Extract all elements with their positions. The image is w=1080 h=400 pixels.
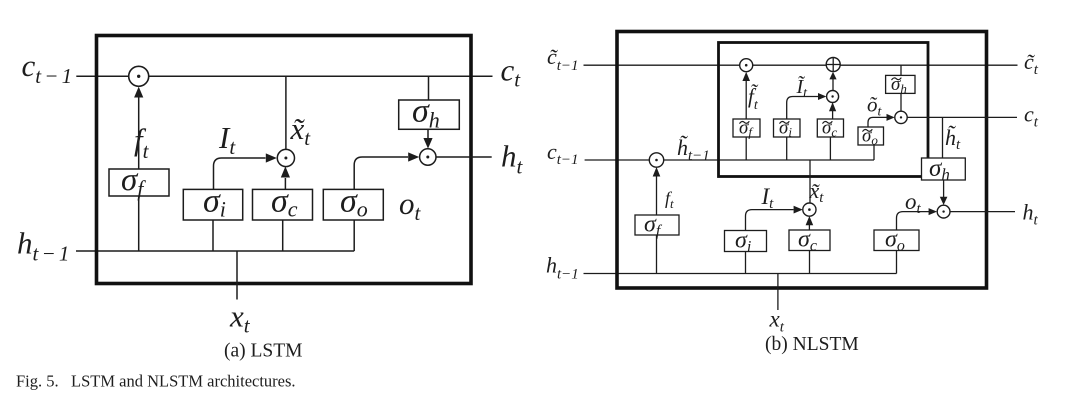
node i product ⊙ (b inner) <box>827 91 839 103</box>
wire σ-tilde_h to o product (b inner) <box>900 93 902 111</box>
gate σ_f (a) <box>109 162 169 201</box>
arrow σ_c into x-tilde product (a) <box>284 178 286 189</box>
wire x_t input (b) <box>777 274 779 311</box>
arrow I-tilde into i product (b inner) <box>818 93 826 100</box>
wire σ_c to h line (b) <box>809 251 811 274</box>
gate σ_f (b) <box>635 212 679 240</box>
wire c_{t-1} / h-tilde_{t-1} (b) <box>585 159 874 161</box>
arrow I_t into x-tilde product (b) <box>794 206 803 214</box>
arrow σ-tilde_c into i product (b inner) <box>832 111 834 119</box>
arrow σ_c into x-tilde product (b) <box>808 225 810 230</box>
wire I_t elbow (b) <box>746 210 794 231</box>
svg-text:ht−1: ht−1 <box>546 253 579 283</box>
gate σ-tilde_c (b inner) <box>817 118 843 140</box>
svg-text:ft: ft <box>134 122 150 163</box>
svg-text:(b) NLSTM: (b) NLSTM <box>765 334 859 355</box>
node c product ⊙ (b) <box>649 153 663 167</box>
arrow i product into plus node (b inner) <box>832 79 834 91</box>
wire σ-tilde_o down to h-tilde line end (b inner) <box>873 145 875 160</box>
wire h_{t-1} (a) <box>76 250 354 252</box>
wire f_t vertical (a) <box>138 96 140 251</box>
svg-text:õt: õt <box>867 93 883 120</box>
inner cell box (b) <box>719 43 929 177</box>
svg-text:(a) LSTM: (a) LSTM <box>224 340 303 361</box>
wire c_t out (b) <box>907 116 1017 118</box>
arrow o_t into output product (a) <box>408 152 419 161</box>
wire c-tilde line to σ-tilde_h (b inner) <box>900 65 902 75</box>
svg-text:ht: ht <box>501 139 524 179</box>
wire σ_o to h line (b) <box>896 251 898 274</box>
svg-text:xt: xt <box>229 299 251 338</box>
gate σ_o (a) <box>323 183 383 222</box>
wire σ_i to h line (a) <box>212 220 214 251</box>
arrow into forget product (a) <box>134 87 143 98</box>
wire σ_o to h line (a) <box>353 220 355 251</box>
svg-text:ot: ot <box>905 189 922 217</box>
wire I_t elbow (a) <box>214 158 266 189</box>
gate σ-tilde_f (b inner) <box>733 118 760 140</box>
arrow into c product (b) <box>653 167 661 177</box>
arrow I_t into x-tilde product (a) <box>266 153 277 162</box>
arrow σ_h into h product (b) <box>943 180 945 197</box>
gate σ_c (b) <box>789 227 830 255</box>
svg-text:x̃t: x̃t <box>290 111 312 150</box>
node h product ⊙ (b) <box>937 205 950 218</box>
wire σ_c to h line (a) <box>282 220 284 251</box>
wire σ_o elbow to output product (a) <box>354 157 408 189</box>
svg-text:c̃t: c̃t <box>1024 49 1039 78</box>
svg-text:xt: xt <box>769 306 785 335</box>
node f-tilde product ⊙ (b inner) <box>740 59 753 72</box>
outer cell box (a) <box>97 36 472 284</box>
svg-text:ct: ct <box>501 52 522 91</box>
wire σ-tilde_c to h-tilde line (b inner) <box>829 137 831 160</box>
gate σ-tilde_h (b inner) <box>886 74 915 96</box>
gate σ-tilde_o (b inner) <box>858 126 884 148</box>
svg-text:h̃t−1: h̃t−1 <box>677 135 710 164</box>
node plus ⊕ (b inner) <box>826 58 840 72</box>
svg-text:c̃t−1: c̃t−1 <box>547 44 579 74</box>
wire h-tilde_t down to σ_h (b) <box>942 117 944 158</box>
wire I-tilde elbow (b inner) <box>787 97 819 120</box>
svg-text:ht−1: ht−1 <box>17 226 73 266</box>
svg-text:ht: ht <box>1023 200 1039 229</box>
outer cell box (b) <box>617 32 987 289</box>
svg-text:Fig. 5. LSTM and NLSTM archi: Fig. 5. LSTM and NLSTM architectures. <box>16 372 296 391</box>
svg-text:x̃t: x̃t <box>809 178 825 206</box>
gate σ_o (b) <box>874 227 919 255</box>
svg-text:Ĩt: Ĩt <box>796 74 809 101</box>
wire h_t out (b) <box>950 211 1015 213</box>
gate σ_i (a) <box>183 183 242 222</box>
node forget product ⊙ (a) <box>129 66 149 86</box>
wire c line to σ_h (a) <box>428 76 430 100</box>
wire x_t input (a) <box>236 251 238 300</box>
wire o_t elbow (b) <box>897 212 930 230</box>
svg-text:f̃t: f̃t <box>748 84 759 113</box>
wire h_{t-1} (b) <box>584 273 897 275</box>
gate σ_c (a) <box>253 183 313 222</box>
svg-text:σf: σf <box>121 162 146 201</box>
wire σ-tilde_f to h-tilde line (b inner) <box>745 137 747 160</box>
node x-tilde product ⊙ (a) <box>277 149 294 166</box>
svg-text:ct−1: ct−1 <box>22 48 76 88</box>
gate σ-tilde_i (b inner) <box>774 118 801 140</box>
wire f_t vertical (b) <box>656 176 658 274</box>
svg-text:σh: σh <box>412 93 440 133</box>
arrow into f-tilde product (b inner) <box>745 80 747 119</box>
wire σ-tilde_i to h-tilde line (b inner) <box>786 137 788 160</box>
node output product ⊙ (a) <box>420 149 436 165</box>
gate σ_h (a) <box>399 93 460 133</box>
svg-text:ot: ot <box>399 186 422 225</box>
node x-tilde product ⊙ (b) <box>803 203 816 216</box>
wire h_t out (a) <box>436 156 492 158</box>
svg-text:σi: σi <box>203 183 226 222</box>
arrow o_t into h product (b) <box>929 208 937 215</box>
wire σ_i to h line (b) <box>745 252 747 274</box>
svg-text:ct−1: ct−1 <box>547 139 579 168</box>
wire c-tilde_{t-1} to c-tilde_t (b) <box>584 64 1018 66</box>
svg-text:ct: ct <box>1024 101 1039 130</box>
svg-text:σc: σc <box>271 183 298 222</box>
wire c_{t-1} to c_t (a) <box>76 75 492 77</box>
gate σ_i (b) <box>725 228 767 256</box>
wire x-tilde product to inner box (b) <box>809 160 811 203</box>
svg-text:ft: ft <box>665 188 674 211</box>
wire σ-tilde_o elbow to o product (b inner) <box>868 117 887 127</box>
arrow o-tilde into o product (b inner) <box>887 114 895 121</box>
node o product ⊙ (b inner) <box>895 111 907 123</box>
svg-text:It: It <box>218 120 236 159</box>
svg-text:It: It <box>761 184 775 212</box>
svg-text:h̃t: h̃t <box>945 125 961 153</box>
arrow σ_h into output product (a) <box>427 129 429 139</box>
wire x-tilde product to c line (a) <box>285 76 287 149</box>
gate σ_h (b) <box>922 155 966 184</box>
